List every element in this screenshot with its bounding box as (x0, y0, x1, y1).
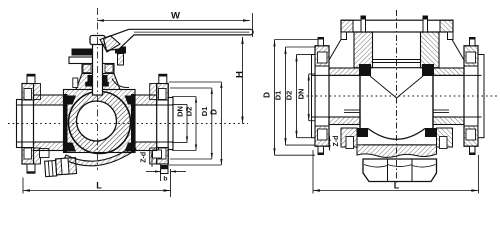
W arrows (97, 19, 104, 21)
D2 arrows (195, 97, 197, 103)
top flange stud left (361, 16, 366, 32)
bore line top left (17, 104, 64, 106)
dim H line (242, 37, 244, 124)
seat top-left (68, 96, 77, 105)
chamber seat bottom-left (357, 128, 368, 137)
right flange hatch top (157, 84, 169, 101)
drain plug head (45, 158, 77, 177)
centerlines drawn on top (8, 8, 497, 183)
svg-text:D: D (210, 109, 219, 115)
L extension left (22, 178, 24, 194)
side block left (341, 128, 357, 147)
rv left flange raised face (312, 55, 316, 138)
top flange lip left (341, 32, 347, 40)
cap joint lines left (344, 109, 360, 111)
right flange bolt slot bottom (159, 148, 167, 159)
drain plug shank (55, 158, 76, 175)
D1 arrows (211, 88, 213, 94)
cap joint lines right (433, 109, 449, 111)
labels left view (96, 11, 245, 191)
seat bottom-left (68, 143, 77, 152)
left flange bolt slot bottom (24, 148, 32, 159)
dim D2 line (195, 97, 197, 151)
svg-text:DN: DN (176, 106, 185, 117)
left tube top wall (34, 95, 64, 105)
chamber V lines (370, 76, 397, 98)
top flange hatch left (341, 20, 353, 32)
left flange stud bottom (27, 164, 35, 173)
right flange hub hatch bottom (150, 148, 157, 164)
right view horizontal centerline (302, 95, 497, 97)
bottom cover strap (64, 146, 136, 166)
b arrows lines (146, 171, 161, 173)
rv right flange stud bottom (470, 146, 476, 154)
rv right flange plate (464, 46, 478, 146)
rv shoulder lines (329, 40, 341, 61)
neck wall left (354, 32, 373, 68)
rv L extension left (312, 150, 314, 194)
packing right (103, 75, 108, 84)
bore line bottom right (135, 141, 173, 143)
dim W right extension tick (252, 13, 254, 37)
stem bottom box (93, 87, 101, 94)
rv tube bottom wall right (433, 117, 464, 125)
handle lever (104, 29, 254, 50)
right flange hatch bottom (157, 148, 169, 165)
svg-text:D1: D1 (200, 107, 209, 117)
svg-text:DN: DN (297, 89, 306, 100)
stem top cap (90, 36, 105, 45)
rv left flange stud bottom (318, 146, 324, 154)
hex facet arcs (364, 165, 388, 168)
left flange hatch bottom (22, 148, 34, 165)
right flange stud top (159, 74, 167, 83)
rv tube top wall left (329, 68, 360, 75)
rv left flange stud top (318, 38, 324, 46)
Z-d leader (151, 152, 153, 168)
right flange plate (157, 84, 169, 165)
right flange raised face (168, 98, 173, 150)
rv D1 arrows (284, 47, 286, 54)
left flange bolt slot top (24, 89, 32, 100)
right view vertical centerline (396, 10, 398, 183)
side block slot right (440, 137, 448, 149)
svg-text:D1: D1 (274, 91, 283, 101)
rv right flange stud top (470, 38, 476, 46)
gland hatch right (105, 65, 113, 73)
svg-text:Z-d: Z-d (333, 136, 340, 147)
svg-text:W: W (171, 11, 180, 22)
left flange hub hatch bottom (34, 148, 41, 164)
rv left flange slot bottom (318, 129, 328, 140)
seat bottom-right (125, 143, 132, 152)
svg-text:H: H (235, 71, 246, 78)
bottom wall slot near right flange (153, 150, 162, 158)
right tube top wall (135, 95, 157, 105)
handle hub (100, 36, 120, 52)
right flange bolt slot top (159, 89, 167, 100)
body step curve right (112, 79, 129, 88)
drain plug band (61, 158, 69, 174)
extension lines top (172, 104, 187, 106)
body joint bar right (131, 94, 135, 153)
bottom wall slot near left flange (40, 149, 50, 158)
rv tube top wall right (433, 68, 464, 75)
rv L extension right (477, 155, 479, 194)
neck stem channel (93, 74, 103, 90)
rv dim D1 line (285, 47, 287, 145)
left flange plate (22, 84, 34, 165)
rv dim L line (313, 190, 478, 192)
rv Z-d arrowhead (328, 136, 330, 142)
bore line top right (135, 104, 173, 106)
seat top-right (125, 96, 132, 105)
rv right flange hatch bottom (464, 126, 478, 146)
left tube bottom wall (34, 142, 64, 151)
b arrows (155, 170, 161, 172)
right flange stud bottom (161, 164, 168, 174)
rv left flange slot top (318, 52, 328, 63)
left flange hatch top (22, 84, 34, 101)
svg-text:D: D (263, 92, 272, 98)
rv extension lines (275, 39, 319, 41)
rv tube bottom wall left (329, 117, 360, 125)
ball inner circle (bore) (77, 101, 117, 141)
dim b verticals (160, 169, 162, 181)
DN arrows (186, 105, 188, 111)
dim DN line (186, 105, 188, 143)
D arrows (220, 82, 222, 88)
bottom cap hatched band (357, 145, 437, 157)
chamber walls (359, 68, 361, 137)
L arrows (23, 189, 30, 191)
packing left (88, 75, 93, 84)
side block right (437, 128, 453, 147)
rv left flange hatch bottom (315, 126, 329, 146)
right gland bolt cap (115, 47, 126, 54)
extension lines bottom (172, 142, 187, 144)
rv right flange slot top (466, 52, 476, 63)
labels right view (263, 89, 400, 191)
stem (93, 37, 103, 96)
neck joint lines (373, 59, 421, 61)
svg-text:D2: D2 (185, 107, 194, 117)
dim W line (97, 20, 250, 22)
chamber seat bottom-right (425, 128, 436, 137)
chamber seat top-right (422, 64, 434, 76)
ball outer circle (69, 92, 131, 154)
rv dim DN line (308, 74, 310, 121)
bore line bottom left (17, 141, 64, 143)
housing slot notch left (73, 78, 78, 88)
top flange stud right (423, 16, 428, 32)
svg-text:b: b (163, 176, 167, 183)
left gland nut (69, 57, 93, 64)
dim D line (220, 82, 222, 165)
svg-text:Z-d: Z-d (141, 152, 148, 163)
top flange hatch right (440, 20, 453, 32)
right gland bolt shank (118, 54, 124, 66)
hex nut facets (387, 159, 389, 182)
ball bottom arc (368, 129, 425, 140)
right tube bottom wall (135, 142, 157, 151)
chamber seat top-left (359, 64, 371, 76)
neck trapezoid (76, 74, 120, 90)
svg-text:L: L (96, 181, 102, 191)
rv Z-d dim line (329, 136, 331, 151)
svg-text:D2: D2 (285, 91, 294, 101)
dim D1 line (211, 88, 213, 159)
dim L line (23, 190, 171, 192)
left view vertical centerline (97, 8, 99, 170)
left flange stud top (27, 74, 35, 83)
left view horizontal centerline (8, 123, 248, 125)
rv DN arrows (308, 74, 310, 81)
rv dim D line (274, 40, 276, 156)
rv right flange slot bottom (466, 129, 476, 140)
rv L arrows (313, 189, 320, 191)
left flange raised face (17, 100, 23, 148)
chamber top edge (360, 67, 433, 69)
top flange lip right (448, 32, 454, 40)
rv dim D2 line (296, 55, 298, 138)
rv D2 arrows (295, 55, 297, 62)
stem collar bar (85, 82, 109, 87)
right flange hub hatch top (150, 84, 157, 100)
rv D arrows (273, 40, 275, 47)
rv left flange plate (315, 46, 329, 146)
side block slot left (346, 137, 354, 149)
top flange slab (341, 20, 453, 32)
gland plate (82, 64, 114, 74)
rv bore lines (312, 74, 361, 76)
neck wall right (421, 32, 440, 68)
Z-d arrowhead (151, 151, 153, 157)
body joint bar left (64, 94, 68, 153)
hex nut (363, 159, 437, 182)
handle inner line (134, 31, 250, 33)
rv right flange raised face (478, 55, 484, 138)
central housing hatched block (64, 90, 136, 153)
gland hatch left (83, 65, 91, 73)
cap top line (363, 144, 430, 146)
H arrows (241, 37, 243, 44)
left gland bolt dark (72, 49, 93, 56)
rv right flange hatch top (464, 46, 478, 66)
left flange hub hatch top (34, 84, 41, 100)
rv left flange hatch top (315, 46, 329, 66)
